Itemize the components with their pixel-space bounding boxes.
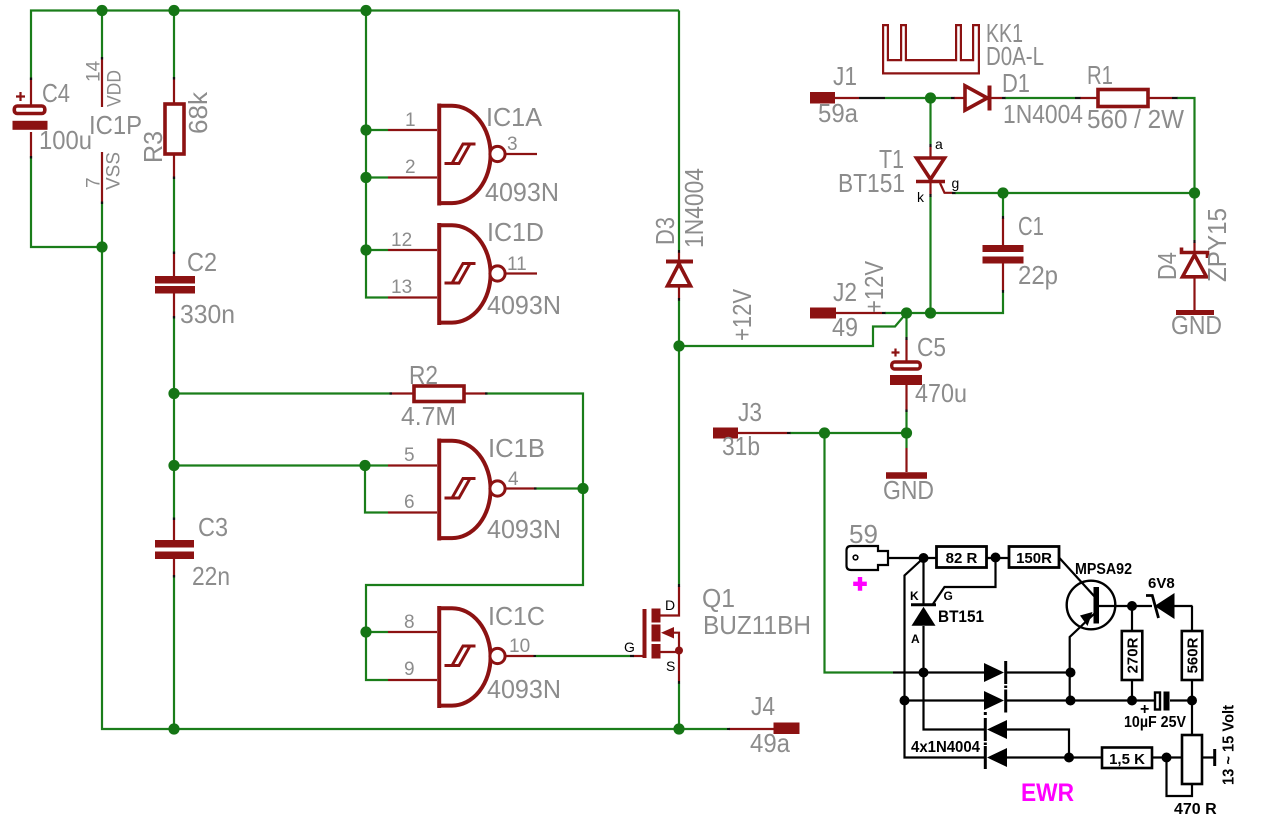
junction R2 left <box>168 388 179 399</box>
svg-text:C1: C1 <box>1018 211 1044 241</box>
svg-text:49: 49 <box>832 312 858 342</box>
junction pin12 <box>360 244 371 255</box>
svg-text:3: 3 <box>507 134 518 155</box>
wire 270R to row2 <box>1131 680 1133 701</box>
resistor 560R <box>1182 631 1203 680</box>
diode row1 1N4004 <box>984 661 1006 684</box>
plus polarity mark magenta <box>853 577 867 591</box>
svg-text:+12V: +12V <box>859 260 889 313</box>
connector J4 <box>727 723 800 735</box>
wire pin2 spur <box>366 176 388 178</box>
wire J1 node to D1 <box>931 97 952 99</box>
zener diode D4 <box>1182 240 1208 310</box>
resistor R3 <box>165 77 184 179</box>
wire zener down to 560R <box>1191 606 1193 631</box>
svg-text:R2: R2 <box>409 360 438 390</box>
diode D1 <box>951 86 1006 111</box>
wire pin9 spur <box>366 632 388 680</box>
junction 82R-150R node <box>991 553 1001 563</box>
svg-text:R3: R3 <box>138 131 168 163</box>
wire C5 bottom to GND node <box>905 410 907 433</box>
junction VDD-C4 <box>96 5 107 16</box>
junction bottom rail Q1 <box>673 723 684 734</box>
svg-text:59: 59 <box>849 519 878 549</box>
svg-text:S: S <box>666 658 675 674</box>
zener diode 6V8 <box>1132 593 1193 619</box>
svg-text:IC1A: IC1A <box>486 102 543 132</box>
diode dashed bar link right column <box>1004 686 1007 689</box>
wire C2 to C3 through R2 and pin5 nodes <box>173 317 175 519</box>
wire thyristor diagonal to left rail <box>905 558 985 758</box>
connector J3 <box>713 428 791 439</box>
diode D3 <box>666 250 693 301</box>
svg-text:10: 10 <box>509 636 530 657</box>
svg-text:13 ~ 15 Volt: 13 ~ 15 Volt <box>1221 704 1238 785</box>
svg-text:BT151: BT151 <box>838 168 905 198</box>
resistor 270R <box>1122 631 1143 680</box>
svg-text:68k: 68k <box>183 91 213 134</box>
svg-text:7: 7 <box>84 177 105 188</box>
svg-text:14: 14 <box>84 60 105 82</box>
svg-text:D4: D4 <box>1152 252 1182 280</box>
svg-text:150R: 150R <box>1016 550 1052 567</box>
svg-text:2: 2 <box>405 157 416 178</box>
svg-text:470 R: 470 R <box>1174 801 1217 818</box>
svg-text:IC1C: IC1C <box>488 601 545 631</box>
junction plug node <box>919 553 929 563</box>
junction row2 left <box>900 696 910 706</box>
capacitor 10uF 25V <box>1155 692 1170 711</box>
svg-text:D0A-L: D0A-L <box>986 41 1044 71</box>
svg-text:1,5 K: 1,5 K <box>1109 751 1145 768</box>
junction J1 node <box>925 92 936 103</box>
svg-text:1N4004: 1N4004 <box>679 168 709 248</box>
connector 59 plug <box>847 546 889 570</box>
capacitor C3 <box>155 518 194 578</box>
connector J1 <box>810 92 885 104</box>
svg-text:5: 5 <box>404 445 415 466</box>
svg-text:4093N: 4093N <box>487 674 561 704</box>
wire D4 top <box>1193 193 1195 240</box>
svg-text:BT151: BT151 <box>938 607 984 626</box>
svg-text:4093N: 4093N <box>487 290 561 320</box>
svg-text:BUZ11BH: BUZ11BH <box>703 610 811 640</box>
wire pin5 net from C-rail <box>174 464 388 466</box>
svg-text:560R: 560R <box>1185 637 1202 673</box>
svg-text:560 / 2W: 560 / 2W <box>1087 104 1184 134</box>
wire R3 to C2 <box>173 179 175 254</box>
junction T1 gate C1 <box>997 187 1008 198</box>
wire 82R to 150R <box>987 557 1010 559</box>
wire J3 net <box>790 432 907 434</box>
wire R2 left <box>174 392 391 394</box>
svg-text:D: D <box>665 597 675 613</box>
wire R2 right feedback <box>486 394 583 489</box>
connector J2 <box>810 308 886 319</box>
wire gate to 82R-150R node <box>933 558 996 604</box>
junction J3 node <box>819 427 830 438</box>
svg-text:MPSA92: MPSA92 <box>1075 561 1132 578</box>
transistor Q1 <box>630 584 683 684</box>
svg-text:10µF 25V: 10µF 25V <box>1124 714 1186 731</box>
svg-text:31b: 31b <box>722 431 760 461</box>
svg-text:D3: D3 <box>650 217 680 245</box>
thyristor BT151 lower <box>911 605 936 626</box>
op-amp IC1P power symbol <box>101 57 103 204</box>
nand gate IC1C <box>388 606 536 708</box>
svg-text:GND: GND <box>1171 310 1222 340</box>
svg-text:C2: C2 <box>187 247 217 277</box>
junction VSS-C4 <box>96 241 107 252</box>
nand gate IC1B <box>388 439 537 541</box>
svg-text:22p: 22p <box>1018 260 1058 290</box>
svg-text:G: G <box>624 639 635 655</box>
svg-text:ZPY15: ZPY15 <box>1202 208 1232 282</box>
wire 150R to MPSA92 base <box>1059 558 1095 597</box>
svg-text:4.7M: 4.7M <box>401 401 456 431</box>
svg-text:D1: D1 <box>1002 68 1030 98</box>
junction C5 GND node <box>901 427 912 438</box>
junction IC1B out <box>577 483 588 494</box>
wire VDD top rail <box>31 11 679 80</box>
svg-text:1: 1 <box>405 110 416 131</box>
resistor 150R <box>1009 547 1059 568</box>
svg-text:6V8: 6V8 <box>1148 575 1175 592</box>
ground symbol below D4 <box>1176 310 1214 315</box>
wire C1 bottom to J2 net <box>885 293 1003 314</box>
wire J3 node down to EWR circuit <box>825 433 894 673</box>
wire node to 270R <box>1131 606 1133 631</box>
nand gate IC1D <box>388 223 537 325</box>
svg-text:GND: GND <box>883 475 934 505</box>
wire C3 bottom to bottom rail <box>173 576 175 729</box>
svg-text:J1: J1 <box>833 61 857 91</box>
diode row4 1N4004 <box>985 746 1007 769</box>
nand gate IC1A <box>388 104 537 206</box>
wire VSS pin to bottom rail and bottom wire <box>102 202 727 729</box>
wire J1 node to T1 anode <box>929 98 931 144</box>
capacitor C4 <box>13 78 48 159</box>
junction row1 collector <box>1066 668 1076 678</box>
capacitor C2 <box>155 252 195 319</box>
svg-text:A: A <box>911 632 920 646</box>
wire D3 bottom +12V rail to Q1 drain <box>678 301 680 585</box>
wire C5 top <box>905 313 907 337</box>
junction pin8 <box>360 626 371 637</box>
junction row4 pot <box>1162 753 1172 763</box>
svg-text:G: G <box>944 589 953 603</box>
wire row2 <box>905 699 1193 701</box>
junction J2 node <box>901 307 912 318</box>
svg-text:C4: C4 <box>42 78 70 108</box>
svg-text:11: 11 <box>507 254 527 275</box>
svg-text:4093N: 4093N <box>487 514 561 544</box>
wire GND node below C5 <box>905 433 907 448</box>
svg-text:C5: C5 <box>917 332 946 362</box>
wire T1 gate net <box>955 192 1195 194</box>
transistor MPSA92 <box>1067 581 1132 701</box>
resistor 82R <box>937 547 987 568</box>
junction emitter 6V8 node <box>1127 601 1137 611</box>
wire IC1B output node <box>536 487 583 489</box>
wire T1 cathode drop <box>929 197 931 314</box>
svg-text:9: 9 <box>404 659 415 680</box>
junction bottom rail C3 <box>168 723 179 734</box>
wire pin6 spur <box>365 466 388 513</box>
thyristor T1 <box>916 144 956 197</box>
svg-text:4: 4 <box>508 469 519 490</box>
resistor 1,5K <box>1102 748 1152 769</box>
svg-text:EWR: EWR <box>1021 779 1074 807</box>
junction row4 bridge <box>1064 753 1074 763</box>
svg-text:IC1P: IC1P <box>89 110 142 140</box>
svg-text:6: 6 <box>404 492 415 513</box>
wire R3 top <box>173 11 175 80</box>
wire row1 <box>893 671 1071 673</box>
wire D1 to R1 <box>1005 97 1075 99</box>
svg-text:59a: 59a <box>818 98 858 128</box>
wire IC1A/IC1D input rail <box>366 11 388 298</box>
svg-text:IC1D: IC1D <box>487 217 544 247</box>
diode row2 1N4004 <box>984 690 1006 713</box>
junction pin5 rail <box>168 460 179 471</box>
svg-text:270R: 270R <box>1125 637 1142 673</box>
diode dashed bar link left column <box>984 712 987 745</box>
junction gate net D4 <box>1189 187 1200 198</box>
wire thyristor anode to row3 <box>924 626 985 730</box>
junction pin1 <box>360 124 371 135</box>
junction VDD-gate rail <box>360 5 371 16</box>
svg-text:Q1: Q1 <box>702 583 735 613</box>
wire VDD pin drop <box>101 11 103 60</box>
potentiometer 470R <box>1167 735 1215 796</box>
junction row2 collector <box>1066 696 1076 706</box>
ground symbol below C5 <box>886 448 927 476</box>
wire R1 right to D4 rail <box>1177 98 1195 193</box>
resistor R1 <box>1075 90 1178 107</box>
svg-text:K: K <box>910 589 919 603</box>
capacitor C5 <box>890 337 922 412</box>
svg-text:VSS: VSS <box>104 152 125 190</box>
resistor R2 <box>390 386 488 402</box>
svg-text:R1: R1 <box>1087 60 1113 90</box>
svg-text:330n: 330n <box>180 299 235 329</box>
svg-text:C3: C3 <box>198 512 228 542</box>
junction row1 thyristor <box>919 668 929 678</box>
svg-text:13: 13 <box>391 277 412 298</box>
svg-text:4093N: 4093N <box>485 177 559 207</box>
wire row3 <box>1007 730 1069 758</box>
junction pin5-pin6 <box>359 460 370 471</box>
svg-text:k: k <box>917 189 925 205</box>
svg-text:+12V: +12V <box>727 288 757 341</box>
svg-text:49a: 49a <box>750 728 790 758</box>
wire J1 net <box>885 97 931 99</box>
diode row3 1N4004 <box>985 718 1007 741</box>
svg-text:a: a <box>935 136 943 152</box>
wire row4 <box>1007 756 1214 758</box>
junction row2 270R <box>1127 696 1137 706</box>
svg-text:470u: 470u <box>915 378 967 408</box>
heatsink KK1 <box>882 24 980 75</box>
wire C4 bottom to VSS rail <box>31 158 102 248</box>
junction row2 560R <box>1187 696 1197 706</box>
svg-text:J4: J4 <box>751 691 775 721</box>
junction T1 cathode node <box>925 307 936 318</box>
svg-text:g: g <box>952 175 960 191</box>
wire +12V link to J2 node <box>679 313 907 346</box>
junction pin2 <box>360 172 371 183</box>
wire Q1 source to bottom rail <box>678 684 680 730</box>
wire IC1B out to IC1C inputs <box>366 489 583 633</box>
capacitor C1 <box>983 216 1024 293</box>
junction +12V D3 <box>673 340 684 351</box>
wire thyristor cathode drop <box>922 558 924 604</box>
svg-text:8: 8 <box>404 612 415 633</box>
svg-text:12: 12 <box>391 230 412 251</box>
svg-text:VDD: VDD <box>105 70 126 107</box>
svg-text:IC1B: IC1B <box>488 433 545 463</box>
wire pin12 spur <box>366 249 388 251</box>
svg-text:100u: 100u <box>39 125 92 155</box>
svg-text:J2: J2 <box>833 277 857 307</box>
wire plug to 82R <box>888 557 937 559</box>
svg-text:22n: 22n <box>192 561 230 591</box>
wire IC1C out to Q1 gate <box>536 655 630 657</box>
svg-text:82 R: 82 R <box>946 550 978 567</box>
wire C1 top <box>1002 193 1004 216</box>
wire 560R to row2 and potentiometer <box>1191 680 1193 735</box>
svg-text:1N4004: 1N4004 <box>1003 99 1083 129</box>
wire pin1 spur <box>366 129 388 131</box>
junction VDD-R3 <box>168 5 179 16</box>
svg-text:J3: J3 <box>738 397 762 427</box>
wire D3 top rail <box>678 11 680 251</box>
svg-text:4x1N4004: 4x1N4004 <box>911 739 980 756</box>
